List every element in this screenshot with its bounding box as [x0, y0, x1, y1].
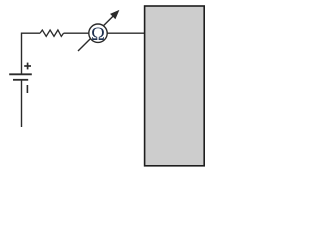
svg-text:Ω: Ω: [91, 25, 105, 45]
gray block (device under test): [145, 6, 205, 166]
arrowhead of diagonal adjustment arrow: [111, 11, 119, 19]
battery B1 short negative plate: [13, 79, 28, 81]
label - (negative terminal, vertical tick): [26, 85, 28, 93]
wire: meter to block: [107, 32, 144, 34]
wire: resistor to meter: [64, 32, 90, 34]
wire: battery - terminal down: [21, 80, 23, 127]
ohmmeter M1 circle: [89, 24, 107, 42]
wire: top-left vertical from battery + plate up to corner: [22, 33, 41, 74]
resistor R (zigzag): [40, 30, 64, 36]
battery B1 long positive plate: [9, 73, 32, 75]
label + (positive terminal): [24, 63, 31, 70]
wire: variable-adjustment diagonal through meter: [78, 16, 114, 51]
